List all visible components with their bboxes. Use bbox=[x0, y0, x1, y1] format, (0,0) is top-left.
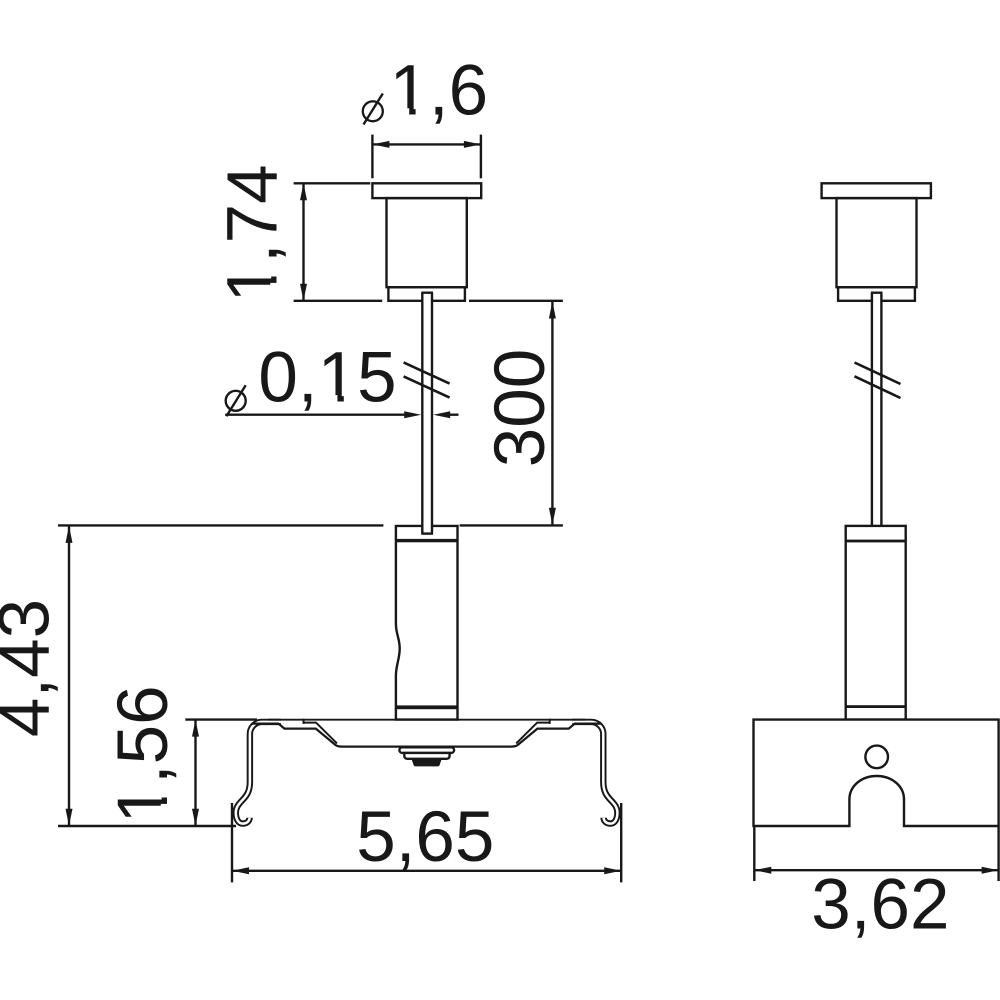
cap body right view bbox=[837, 198, 917, 287]
hole in block right view bbox=[865, 746, 888, 769]
wire notch white gaps left view bbox=[423, 298, 431, 529]
bottom block right view with arch notch bbox=[754, 720, 999, 826]
dimension 1,56 bbox=[104, 685, 257, 825]
cap bottom extension line right (300 dim top) bbox=[469, 300, 563, 302]
cylinder top band right view bbox=[846, 540, 906, 543]
svg-text:4,43: 4,43 bbox=[0, 599, 65, 737]
wire break marks right view bbox=[855, 363, 901, 399]
cylinder body left view bbox=[396, 526, 458, 720]
dimension 1,74 bbox=[214, 164, 371, 302]
cap flange left view bbox=[372, 183, 481, 198]
svg-text:1,74: 1,74 bbox=[214, 164, 293, 302]
nut rubber tier (black) bbox=[411, 759, 441, 767]
cap lower collar left view bbox=[388, 287, 465, 301]
suspension wire left view bbox=[421, 293, 433, 534]
dimension 3,62 bbox=[754, 827, 998, 945]
cylinder bottom band left view bbox=[396, 705, 458, 709]
wire break marks left view bbox=[404, 362, 450, 397]
svg-text:0,15: 0,15 bbox=[258, 338, 396, 417]
cap body left view bbox=[387, 198, 467, 287]
dimension ø0,15 bbox=[225, 338, 458, 418]
cap lower collar right view bbox=[838, 287, 915, 301]
cylinder top band left view bbox=[396, 539, 458, 542]
nut washer tier bbox=[399, 747, 454, 753]
dimension lines ø1,6 bbox=[372, 135, 481, 179]
suspension wire right view bbox=[871, 293, 883, 526]
svg-text:300: 300 bbox=[481, 349, 560, 467]
svg-text:3,62: 3,62 bbox=[811, 866, 949, 945]
nut hex tier bbox=[404, 753, 449, 759]
cap bottom extension line left bbox=[294, 300, 383, 302]
mounting clip left arm bbox=[236, 722, 281, 824]
dish pressed in clip bbox=[252, 719, 602, 747]
svg-text:1,6: 1,6 bbox=[389, 52, 488, 131]
cylinder bottom band right view bbox=[846, 705, 906, 708]
cylinder body right view bbox=[846, 526, 906, 720]
dimension label ø1,6 bbox=[363, 52, 488, 131]
dimension 300 bbox=[460, 302, 563, 526]
wire notch white gap right view bbox=[873, 298, 880, 304]
svg-text:5,65: 5,65 bbox=[356, 798, 494, 877]
cap flange right view bbox=[822, 183, 931, 198]
svg-text:1,56: 1,56 bbox=[104, 685, 183, 823]
clip top plate mouth edge bbox=[268, 719, 585, 721]
mounting clip right arm bbox=[572, 722, 617, 824]
dimension 5,65 bbox=[232, 798, 621, 882]
dimension 4,43 bbox=[0, 525, 383, 826]
